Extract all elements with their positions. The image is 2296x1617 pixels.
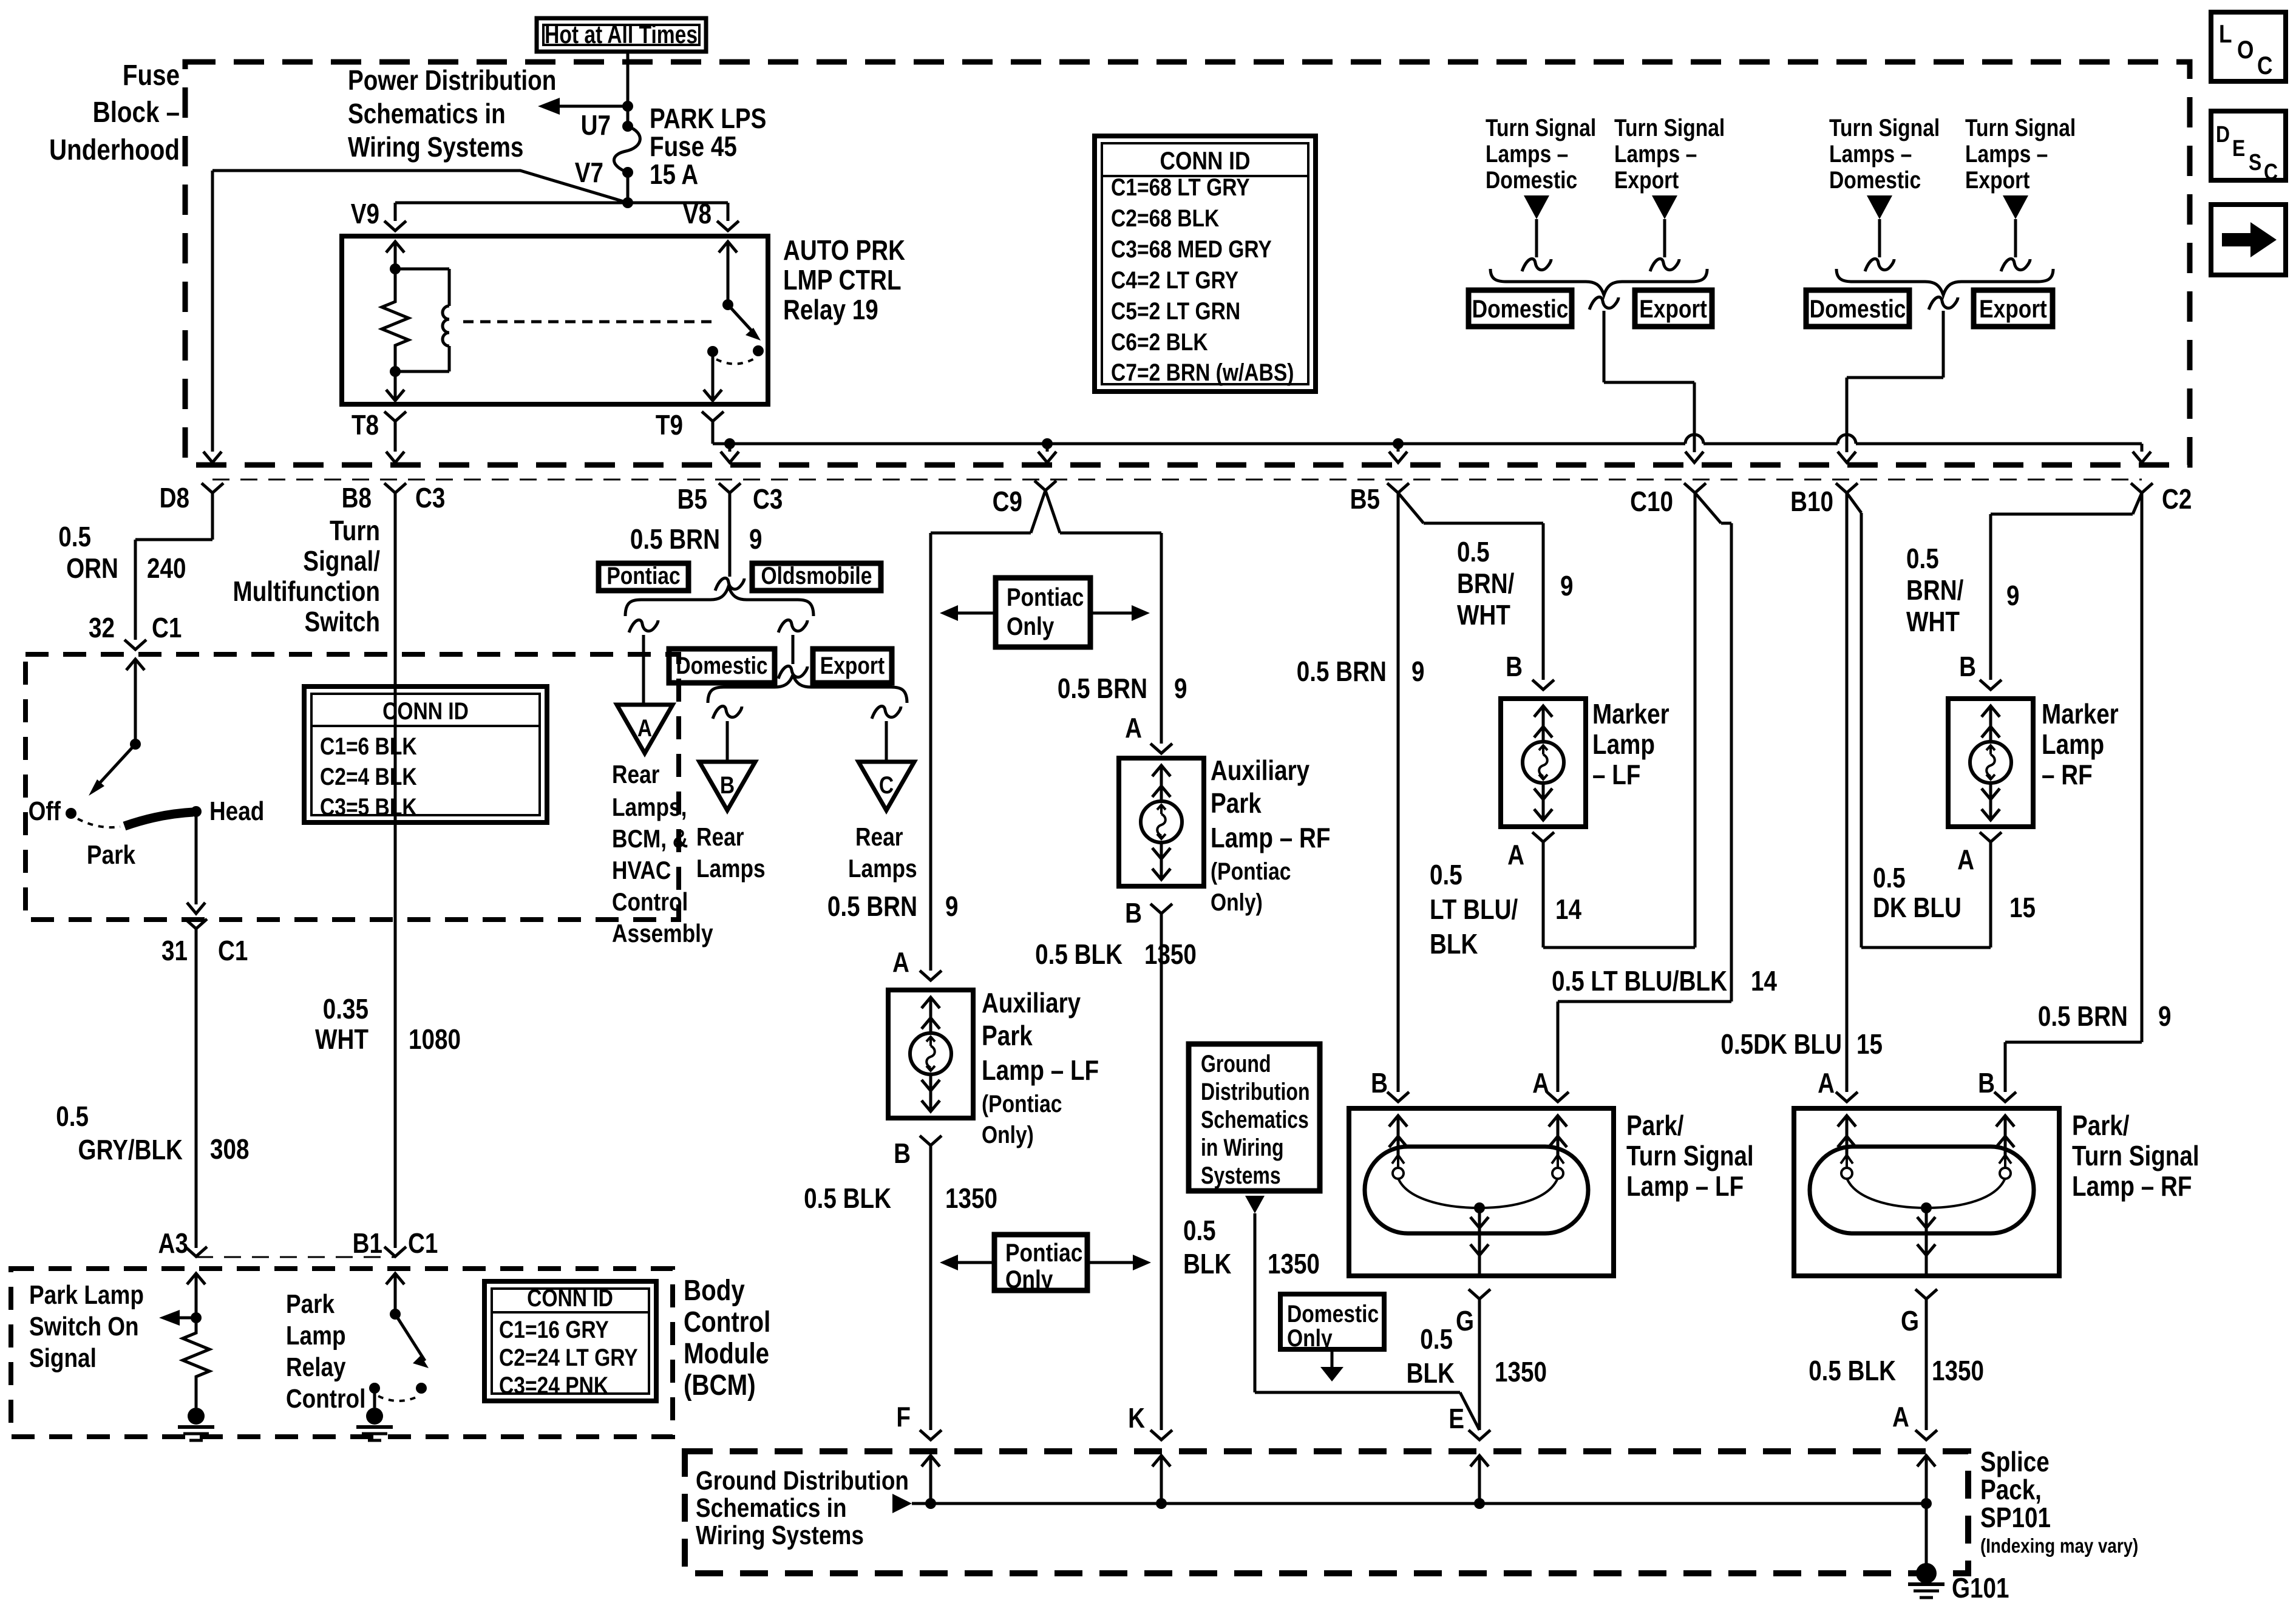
svg-text:9: 9: [1411, 656, 1424, 687]
svg-text:C: C: [2257, 52, 2272, 80]
svg-text:Domestic: Domestic: [1472, 295, 1569, 324]
svg-text:PARK LPS: PARK LPS: [650, 103, 766, 134]
svg-text:Marker: Marker: [1592, 699, 1669, 730]
svg-text:0.5 BRN: 0.5 BRN: [630, 524, 720, 555]
svg-text:Park: Park: [286, 1289, 335, 1319]
svg-text:0.35: 0.35: [323, 994, 369, 1025]
svg-text:C3=68 MED GRY: C3=68 MED GRY: [1111, 236, 1272, 262]
svg-text:ORN: ORN: [66, 553, 118, 584]
svg-text:CONN ID: CONN ID: [527, 1284, 613, 1311]
svg-text:(Pontiac: (Pontiac: [1211, 858, 1291, 884]
svg-text:Auxiliary: Auxiliary: [1211, 755, 1310, 786]
svg-text:Signal/: Signal/: [303, 546, 380, 577]
svg-text:Only): Only): [982, 1121, 1034, 1148]
svg-text:Systems: Systems: [1201, 1162, 1281, 1189]
svg-text:LMP CTRL: LMP CTRL: [783, 265, 902, 296]
svg-text:Module: Module: [684, 1338, 769, 1370]
svg-text:Park/: Park/: [2072, 1110, 2130, 1141]
svg-text:LT BLU/: LT BLU/: [1430, 894, 1518, 925]
svg-text:0.5 BRN: 0.5 BRN: [2038, 1001, 2128, 1032]
svg-text:C3=24 PNK: C3=24 PNK: [499, 1372, 608, 1398]
svg-text:Lamp: Lamp: [1592, 729, 1655, 760]
svg-text:in Wiring: in Wiring: [1201, 1134, 1284, 1161]
svg-text:G101: G101: [1952, 1573, 2009, 1604]
svg-text:BRN/: BRN/: [1906, 575, 1964, 606]
svg-text:Lamps,: Lamps,: [612, 793, 687, 822]
svg-text:B: B: [720, 771, 735, 798]
svg-text:Lamps –: Lamps –: [1614, 140, 1697, 167]
svg-text:1350: 1350: [1495, 1357, 1547, 1388]
svg-text:BRN/: BRN/: [1457, 568, 1515, 599]
svg-text:Turn Signal: Turn Signal: [1965, 114, 2076, 141]
svg-text:Power Distribution: Power Distribution: [348, 65, 556, 96]
svg-text:A: A: [1532, 1068, 1549, 1099]
svg-text:Export: Export: [820, 652, 885, 679]
svg-text:Schematics in: Schematics in: [348, 98, 506, 129]
svg-text:C1=68 LT GRY: C1=68 LT GRY: [1111, 174, 1250, 200]
svg-text:Lamps: Lamps: [848, 855, 917, 883]
svg-text:V8: V8: [683, 198, 712, 229]
svg-text:B: B: [1978, 1068, 1995, 1099]
svg-text:0.5: 0.5: [1420, 1324, 1453, 1355]
svg-text:14: 14: [1555, 894, 1581, 925]
svg-text:C1: C1: [218, 935, 248, 966]
svg-text:15: 15: [2009, 892, 2036, 923]
svg-text:Export: Export: [1639, 295, 1707, 324]
svg-text:C9: C9: [993, 486, 1022, 517]
svg-text:WHT: WHT: [1906, 606, 1960, 637]
svg-text:A: A: [1818, 1068, 1835, 1099]
svg-text:D: D: [2216, 121, 2230, 147]
svg-text:Underhood: Underhood: [49, 134, 180, 166]
svg-text:B5: B5: [678, 484, 707, 515]
svg-text:14: 14: [1751, 966, 1777, 997]
svg-text:Lamp – LF: Lamp – LF: [1626, 1171, 1744, 1202]
svg-text:V9: V9: [351, 198, 379, 229]
svg-text:C: C: [2264, 159, 2278, 185]
svg-text:Oldsmobile: Oldsmobile: [761, 562, 872, 589]
svg-text:DK BLU: DK BLU: [1873, 892, 1961, 923]
svg-text:Domestic: Domestic: [1810, 295, 1906, 324]
svg-text:C1=6 BLK: C1=6 BLK: [320, 733, 417, 759]
svg-text:Schematics: Schematics: [1201, 1106, 1309, 1133]
svg-text:1350: 1350: [945, 1183, 997, 1214]
svg-text:A: A: [637, 714, 652, 741]
svg-text:0.5 BLK: 0.5 BLK: [1035, 939, 1123, 970]
svg-text:C2=24 LT GRY: C2=24 LT GRY: [499, 1344, 638, 1371]
svg-text:K: K: [1128, 1403, 1145, 1434]
svg-text:0.5 BRN: 0.5 BRN: [827, 891, 917, 922]
svg-text:C3: C3: [415, 483, 445, 514]
svg-text:Block –: Block –: [93, 97, 180, 129]
svg-text:Off: Off: [29, 796, 61, 826]
svg-text:Lamps –: Lamps –: [1829, 140, 1912, 167]
svg-text:Fuse: Fuse: [123, 59, 180, 92]
svg-text:SP101: SP101: [1980, 1502, 2051, 1533]
svg-text:Lamp – RF: Lamp – RF: [2072, 1171, 2192, 1202]
svg-text:T9: T9: [656, 410, 683, 441]
svg-text:Domestic: Domestic: [676, 652, 767, 679]
svg-text:1350: 1350: [1932, 1355, 1984, 1386]
svg-text:Only: Only: [1287, 1324, 1333, 1351]
svg-text:C1=16 GRY: C1=16 GRY: [499, 1316, 609, 1343]
svg-text:Hot at All Times: Hot at All Times: [545, 21, 698, 49]
svg-text:Lamp: Lamp: [2042, 729, 2104, 760]
svg-text:Ground Distribution: Ground Distribution: [696, 1465, 909, 1496]
svg-text:Turn Signal: Turn Signal: [1486, 114, 1596, 141]
svg-text:Splice: Splice: [1980, 1446, 2050, 1477]
svg-text:Pack,: Pack,: [1980, 1474, 2042, 1505]
svg-text:Ground: Ground: [1201, 1050, 1271, 1077]
svg-text:0.5DK BLU: 0.5DK BLU: [1720, 1029, 1842, 1060]
svg-text:E: E: [2232, 135, 2245, 161]
svg-text:Turn Signal: Turn Signal: [1614, 114, 1725, 141]
svg-text:Lamp – LF: Lamp – LF: [982, 1055, 1099, 1086]
svg-text:CONN ID: CONN ID: [1160, 147, 1251, 175]
svg-text:0.5 BLK: 0.5 BLK: [804, 1183, 891, 1214]
svg-text:Distribution: Distribution: [1201, 1078, 1310, 1105]
svg-text:240: 240: [147, 553, 186, 584]
svg-text:0.5: 0.5: [56, 1101, 89, 1132]
svg-text:Signal: Signal: [29, 1343, 97, 1373]
svg-text:Pontiac: Pontiac: [1007, 583, 1084, 612]
svg-text:AUTO PRK: AUTO PRK: [783, 235, 905, 266]
svg-text:– LF: – LF: [1592, 759, 1640, 790]
svg-text:9: 9: [1174, 673, 1187, 704]
svg-text:15: 15: [1856, 1029, 1883, 1060]
svg-text:C5=2 LT GRN: C5=2 LT GRN: [1111, 297, 1240, 324]
svg-text:B5: B5: [1350, 484, 1380, 515]
svg-text:B: B: [894, 1138, 911, 1169]
svg-text:Lamp: Lamp: [286, 1320, 346, 1351]
svg-text:V7: V7: [575, 157, 603, 188]
svg-text:Rear: Rear: [612, 761, 659, 789]
svg-text:C: C: [879, 771, 894, 798]
svg-text:C1: C1: [152, 612, 182, 643]
svg-text:A3: A3: [158, 1228, 188, 1259]
svg-text:0.5 LT BLU/BLK: 0.5 LT BLU/BLK: [1552, 966, 1727, 997]
svg-text:(Pontiac: (Pontiac: [982, 1090, 1062, 1117]
svg-text:A: A: [892, 947, 909, 978]
svg-text:9: 9: [2158, 1001, 2171, 1032]
svg-text:Only: Only: [1005, 1266, 1053, 1294]
svg-text:GRY/BLK: GRY/BLK: [78, 1134, 183, 1165]
svg-text:C2: C2: [2162, 484, 2192, 515]
svg-text:(Indexing may vary): (Indexing may vary): [1980, 1535, 2138, 1558]
svg-text:C6=2 BLK: C6=2 BLK: [1111, 328, 1208, 355]
svg-text:Marker: Marker: [2042, 699, 2119, 730]
svg-text:Pontiac: Pontiac: [1005, 1239, 1082, 1267]
svg-text:0.5: 0.5: [1183, 1215, 1216, 1246]
svg-text:BCM, &: BCM, &: [612, 825, 688, 853]
svg-text:A: A: [1957, 844, 1974, 875]
svg-text:C2=68 BLK: C2=68 BLK: [1111, 205, 1220, 231]
svg-text:Rear: Rear: [696, 823, 744, 852]
svg-text:WHT: WHT: [315, 1024, 369, 1055]
svg-text:Wiring Systems: Wiring Systems: [348, 132, 523, 163]
svg-text:Turn: Turn: [330, 515, 380, 546]
svg-text:G: G: [1456, 1306, 1474, 1337]
svg-text:Relay: Relay: [286, 1352, 346, 1382]
svg-text:1350: 1350: [1268, 1249, 1320, 1280]
svg-text:Park/: Park/: [1626, 1110, 1684, 1141]
svg-text:G: G: [1901, 1306, 1919, 1337]
svg-text:C1: C1: [408, 1228, 438, 1259]
svg-text:Relay 19: Relay 19: [783, 294, 878, 325]
svg-text:0.5 BLK: 0.5 BLK: [1809, 1355, 1896, 1386]
svg-text:Park Lamp: Park Lamp: [29, 1280, 144, 1310]
svg-text:Head: Head: [209, 796, 264, 826]
svg-text:Export: Export: [1979, 295, 2047, 324]
svg-text:A: A: [1125, 713, 1142, 744]
svg-text:B1: B1: [353, 1228, 382, 1259]
svg-text:0.5 BRN: 0.5 BRN: [1058, 673, 1147, 704]
svg-text:308: 308: [210, 1134, 249, 1165]
svg-text:C3: C3: [753, 484, 783, 515]
svg-text:O: O: [2237, 36, 2254, 64]
svg-text:9: 9: [945, 891, 958, 922]
svg-text:F: F: [896, 1402, 911, 1432]
svg-text:Only): Only): [1211, 889, 1263, 915]
svg-text:Multifunction: Multifunction: [233, 576, 380, 607]
svg-text:BLK: BLK: [1183, 1249, 1232, 1280]
svg-text:Schematics in: Schematics in: [696, 1493, 847, 1523]
svg-text:Export: Export: [1965, 166, 2029, 193]
svg-text:1080: 1080: [409, 1024, 461, 1055]
svg-text:A: A: [1507, 839, 1524, 870]
svg-text:Domestic: Domestic: [1287, 1300, 1379, 1327]
svg-text:0.5: 0.5: [1873, 863, 1906, 893]
svg-text:0.5: 0.5: [1457, 537, 1490, 568]
svg-text:WHT: WHT: [1457, 600, 1510, 631]
svg-text:Turn Signal: Turn Signal: [1829, 114, 1940, 141]
svg-text:Park: Park: [982, 1020, 1033, 1051]
svg-text:Park: Park: [87, 839, 136, 870]
svg-text:Export: Export: [1614, 166, 1679, 193]
svg-text:Switch: Switch: [304, 606, 380, 637]
svg-text:– RF: – RF: [2042, 759, 2093, 790]
svg-text:A: A: [1892, 1402, 1909, 1432]
svg-text:Wiring Systems: Wiring Systems: [696, 1520, 864, 1550]
svg-text:Rear: Rear: [855, 823, 903, 852]
svg-text:L: L: [2219, 20, 2232, 49]
svg-text:Control: Control: [684, 1306, 770, 1338]
svg-text:0.5: 0.5: [58, 521, 91, 552]
svg-text:Body: Body: [684, 1275, 745, 1307]
svg-text:Turn Signal: Turn Signal: [2072, 1141, 2199, 1171]
svg-text:Lamps –: Lamps –: [1965, 140, 2048, 167]
svg-text:1350: 1350: [1144, 939, 1197, 970]
svg-text:B10: B10: [1790, 486, 1833, 517]
svg-text:B8: B8: [342, 483, 372, 514]
svg-text:Only: Only: [1007, 612, 1055, 641]
svg-text:0.5: 0.5: [1430, 859, 1462, 890]
svg-text:Park: Park: [1211, 788, 1262, 819]
svg-text:0.5: 0.5: [1906, 543, 1939, 574]
svg-text:9: 9: [1560, 571, 1573, 602]
svg-text:9: 9: [2006, 580, 2019, 611]
svg-text:Control: Control: [612, 888, 688, 917]
svg-text:Lamps –: Lamps –: [1486, 140, 1568, 167]
svg-text:Control: Control: [286, 1383, 365, 1414]
svg-text:Lamps: Lamps: [696, 855, 766, 883]
svg-text:Pontiac: Pontiac: [606, 562, 680, 589]
svg-text:B: B: [1125, 898, 1142, 929]
svg-text:T8: T8: [352, 410, 379, 441]
svg-text:C4=2 LT GRY: C4=2 LT GRY: [1111, 266, 1238, 293]
svg-text:Switch On: Switch On: [29, 1311, 139, 1341]
svg-text:31: 31: [161, 935, 188, 966]
svg-text:HVAC: HVAC: [612, 856, 671, 885]
svg-text:0.5 BRN: 0.5 BRN: [1297, 656, 1387, 687]
svg-text:E: E: [1449, 1403, 1464, 1434]
svg-text:Auxiliary: Auxiliary: [982, 988, 1081, 1019]
svg-text:Lamp – RF: Lamp – RF: [1211, 822, 1330, 853]
svg-text:Domestic: Domestic: [1486, 166, 1577, 193]
svg-text:C7=2 BRN (w/ABS): C7=2 BRN (w/ABS): [1111, 359, 1294, 385]
svg-text:Domestic: Domestic: [1829, 166, 1921, 193]
svg-text:BLK: BLK: [1407, 1358, 1455, 1389]
svg-text:BLK: BLK: [1430, 929, 1478, 960]
svg-text:C2=4 BLK: C2=4 BLK: [320, 763, 417, 790]
svg-text:(BCM): (BCM): [684, 1369, 756, 1402]
svg-text:C10: C10: [1630, 486, 1673, 517]
svg-text:B: B: [1371, 1068, 1388, 1099]
svg-text:B: B: [1959, 651, 1976, 682]
svg-text:C3=5 BLK: C3=5 BLK: [320, 793, 417, 820]
svg-text:15 A: 15 A: [650, 159, 698, 190]
svg-text:9: 9: [749, 524, 762, 555]
svg-text:32: 32: [89, 612, 115, 643]
svg-text:U7: U7: [581, 110, 611, 141]
svg-text:Assembly: Assembly: [612, 920, 713, 948]
svg-text:S: S: [2249, 149, 2261, 175]
svg-text:B: B: [1506, 651, 1523, 682]
svg-text:D8: D8: [160, 483, 189, 514]
svg-text:Turn Signal: Turn Signal: [1626, 1141, 1754, 1171]
svg-text:Fuse 45: Fuse 45: [650, 131, 737, 162]
